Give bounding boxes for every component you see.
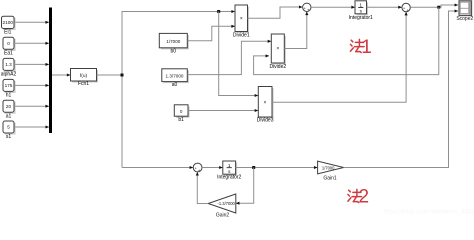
gain block Gain2 <box>208 194 236 219</box>
wire Sum3 to Integrator2 <box>202 167 222 169</box>
wire Divide1 to Sum1 <box>248 7 303 18</box>
wire Divide2 to Sum1 bottom <box>284 12 307 49</box>
wire junction to Divide3 input1 <box>219 12 258 96</box>
svg-text:1: 1 <box>361 37 372 58</box>
svg-text:0: 0 <box>180 109 183 114</box>
wire Integrator1 to Sum2 <box>367 6 402 8</box>
constant Ea1 value 0 <box>3 37 15 56</box>
svg-text:175: 175 <box>5 83 13 88</box>
wire Gain2 to Sum3 bottom <box>197 172 208 203</box>
wire Gain1 to Scope2 port2 <box>344 11 458 168</box>
sum block Sum3 <box>193 163 202 172</box>
junction Fcn1 output <box>121 74 124 77</box>
integrator block Integrator1 <box>349 1 373 21</box>
wire Divide3 to Sum2 bottom <box>272 12 406 102</box>
svg-text:b0: b0 <box>171 49 177 55</box>
wire Integrator2 to Gain1 <box>236 167 318 169</box>
svg-text:1.3: 1.3 <box>5 62 12 67</box>
annotation text fa2 (red) <box>348 187 369 208</box>
wire Sum2 to Scope2 port1 <box>410 5 457 7</box>
svg-text:El1: El1 <box>4 30 11 36</box>
wire junction to Gain2 <box>236 168 254 204</box>
svg-text:Gain2: Gain2 <box>216 213 230 219</box>
wire riser from top wire down to Sum3 level <box>122 12 231 168</box>
wire alphA2 to mux <box>15 63 49 65</box>
svg-text:1/7000: 1/7000 <box>322 165 335 170</box>
svg-text:a0: a0 <box>172 82 178 88</box>
svg-text:alphA2: alphA2 <box>1 72 17 78</box>
constant b0 value 1/7000 <box>159 33 188 54</box>
svg-text:2100: 2100 <box>3 20 14 25</box>
constant a1 value 20 <box>3 100 15 119</box>
constant alphA2 value 1.3 <box>1 58 17 77</box>
integrator block Integrator2 <box>217 161 241 180</box>
wire a1 to mux <box>15 105 49 107</box>
sum block Sum1 <box>303 3 311 12</box>
wire arrow into Divide1 input1 <box>228 11 235 13</box>
svg-text:Integrator1: Integrator1 <box>349 15 373 21</box>
svg-text:×: × <box>240 16 243 22</box>
constant h1 value 175 <box>3 79 15 98</box>
divide block Divide2 <box>269 34 286 70</box>
junction Integrator2 output <box>252 166 255 169</box>
svg-text:-1.3/7000: -1.3/7000 <box>218 201 236 206</box>
svg-text:Integrator2: Integrator2 <box>217 174 241 180</box>
svg-text:Scope2: Scope2 <box>456 16 473 22</box>
svg-text:f(u): f(u) <box>80 73 88 79</box>
svg-text:1.3/7000: 1.3/7000 <box>166 74 184 79</box>
wire Sum1 to Integrator1 <box>311 6 355 8</box>
svg-text:×: × <box>264 100 267 106</box>
svg-text:s1: s1 <box>6 134 12 140</box>
constant a0 value 1.3/7000 <box>162 69 188 88</box>
wire b1 to Divide3 input2 <box>188 110 258 112</box>
svg-text:2: 2 <box>359 187 370 208</box>
wire riser to Sum3 <box>122 167 193 169</box>
svg-text:1/7000: 1/7000 <box>166 39 180 44</box>
svg-text:×: × <box>276 46 279 52</box>
constant s1 value 5 <box>3 121 15 140</box>
gain block Gain1 <box>318 161 344 181</box>
wire a0 to Divide2 input1 <box>187 41 271 74</box>
svg-text:Divide3: Divide3 <box>257 118 274 124</box>
svg-text:https://blog.csdn.net/weixin_4: https://blog.csdn.net/weixin_43931926 <box>383 209 474 216</box>
junction Sum2 output <box>437 6 440 9</box>
wire mux to Fcn1 <box>52 74 70 76</box>
wire s1 to mux <box>15 126 49 128</box>
svg-text:Divide2: Divide2 <box>269 64 286 70</box>
mux <box>49 8 52 134</box>
divide block Divide1 <box>233 5 250 38</box>
svg-text:Divide1: Divide1 <box>233 32 250 38</box>
sum block Sum2 <box>402 3 410 12</box>
annotation text fa1 (red) <box>350 37 371 58</box>
wire Fcn1 output <box>97 74 123 76</box>
svg-text:20: 20 <box>6 104 12 109</box>
wire feedback Sum2 to Divide2 input2 <box>254 7 439 74</box>
svg-text:Ea1: Ea1 <box>4 51 13 57</box>
wire Ea1 to mux <box>15 42 49 44</box>
svg-text:Gain1: Gain1 <box>323 175 337 181</box>
divide block Divide3 <box>257 87 274 124</box>
svg-text:b1: b1 <box>178 117 184 123</box>
junction top wire to Divide3 <box>217 10 220 13</box>
wire b0 to Divide1 input2 <box>187 26 234 40</box>
wire El1 to mux <box>15 21 49 23</box>
svg-text:h1: h1 <box>6 93 12 99</box>
svg-text:a1: a1 <box>6 113 12 119</box>
svg-text:0: 0 <box>7 41 10 46</box>
wire h1 to mux <box>15 84 49 86</box>
constant b1 value 0 <box>174 105 189 123</box>
constant El1 value 2100 <box>2 16 15 36</box>
svg-text:5: 5 <box>7 125 10 130</box>
svg-text:Fcn1: Fcn1 <box>78 81 89 87</box>
function block Fcn1 <box>71 69 98 88</box>
scope block Scope2 <box>456 1 473 22</box>
